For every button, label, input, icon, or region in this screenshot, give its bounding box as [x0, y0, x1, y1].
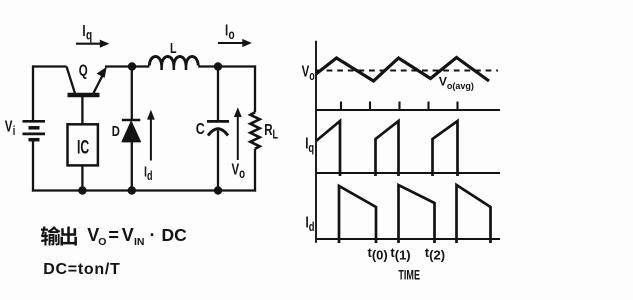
- svg-text:L: L: [170, 39, 177, 56]
- Iq baseline: [316, 172, 500, 174]
- node junction dot A: [128, 62, 136, 70]
- node junction dot B: [214, 62, 222, 70]
- svg-text:V: V: [122, 225, 134, 245]
- diode D branch wire upper: [131, 67, 133, 121]
- waveform y-axis: [315, 41, 317, 243]
- label L: [170, 39, 177, 56]
- capacitor C curved bottom plate: [208, 129, 228, 136]
- wire left vertical upper (Vi branch): [32, 65, 34, 121]
- resistor RL zigzag: [250, 112, 259, 149]
- tick marks: [341, 102, 458, 111]
- capacitor C top plate: [207, 120, 229, 123]
- label Vo axis: [302, 62, 315, 84]
- transistor base wire to IC: [81, 95, 83, 125]
- IC block: [68, 124, 98, 165]
- inductor L winding: [149, 56, 198, 65]
- label Iq axis: [305, 133, 314, 155]
- svg-text:t(1): t(1): [390, 245, 410, 263]
- label Vi: [5, 117, 16, 139]
- battery Vi plate long lower: [23, 133, 46, 136]
- time tick line: [316, 109, 500, 111]
- svg-text:t(0): t(0): [368, 245, 388, 263]
- arrow Id current: [147, 110, 155, 161]
- label RL: [264, 120, 278, 142]
- inductor L inner stubs: [162, 66, 186, 71]
- diode D triangle anode: [122, 122, 140, 142]
- capacitor C branch wire upper: [217, 67, 219, 121]
- diode D branch wire lower: [131, 141, 133, 192]
- svg-text:TIME: TIME: [398, 267, 420, 282]
- battery Vi plate short bottom: [29, 138, 40, 142]
- formula chinese char 出: [60, 227, 76, 246]
- wire left vertical lower: [32, 140, 34, 192]
- Id pulse 2: [399, 185, 435, 243]
- label Id: [144, 163, 152, 184]
- wire inductor to right corner: [198, 65, 256, 67]
- svg-text:DC=ton/T: DC=ton/T: [43, 261, 120, 278]
- junction dot cap-bottom: [214, 186, 222, 194]
- svg-text:·: ·: [150, 225, 156, 245]
- diode D cathode bar: [122, 119, 141, 122]
- label TIME: [398, 267, 420, 282]
- transistor Q base bar: [68, 93, 100, 98]
- label Io current with arrow: [218, 20, 252, 47]
- label C: [196, 121, 205, 139]
- wire right vertical upper: [254, 65, 256, 112]
- label Iq current with arrow: [76, 21, 109, 48]
- svg-text:IC: IC: [77, 138, 90, 158]
- Iq pulse 2: [376, 121, 399, 176]
- svg-text:IN: IN: [134, 236, 145, 248]
- Iq pulse 3: [433, 121, 458, 176]
- Vo ripple waveform: [316, 58, 489, 82]
- Iq pulse 1: [316, 121, 340, 176]
- wire right vertical lower: [254, 149, 256, 192]
- svg-text:=: =: [108, 225, 119, 245]
- label IC: [77, 138, 90, 158]
- transistor Q emitter arrow: [93, 67, 107, 95]
- wire emitter node to inductor: [105, 65, 149, 67]
- battery Vi plate short upper: [29, 126, 40, 130]
- label Q: [79, 61, 88, 79]
- svg-text:C: C: [196, 121, 205, 139]
- junction dot IC-bottom: [78, 186, 86, 194]
- battery Vi plate long top: [23, 120, 46, 123]
- svg-text:O: O: [98, 236, 106, 248]
- Id baseline: [316, 238, 500, 240]
- svg-text:D: D: [112, 122, 120, 139]
- dashed average line: [316, 70, 498, 72]
- Id pulse 3: [457, 185, 491, 243]
- formula VO = VIN . DC: [87, 225, 187, 248]
- svg-text:t(2): t(2): [425, 245, 445, 263]
- label D: [112, 122, 120, 139]
- capacitor C branch wire lower: [217, 131, 219, 192]
- label Vo: [232, 159, 246, 181]
- arrow Vo output voltage: [234, 107, 242, 160]
- Id pulse 1: [339, 186, 376, 243]
- svg-text:DC: DC: [162, 225, 188, 245]
- wire bottom rail: [32, 189, 256, 191]
- junction dot diode-bottom: [128, 186, 136, 194]
- formula chinese char 输: [41, 226, 61, 245]
- transistor Q collector diagonal: [67, 67, 76, 96]
- label Id axis: [306, 212, 315, 234]
- wire top rail left segment: [33, 65, 67, 67]
- svg-text:Q: Q: [79, 61, 88, 79]
- wire IC to bottom rail: [81, 165, 83, 191]
